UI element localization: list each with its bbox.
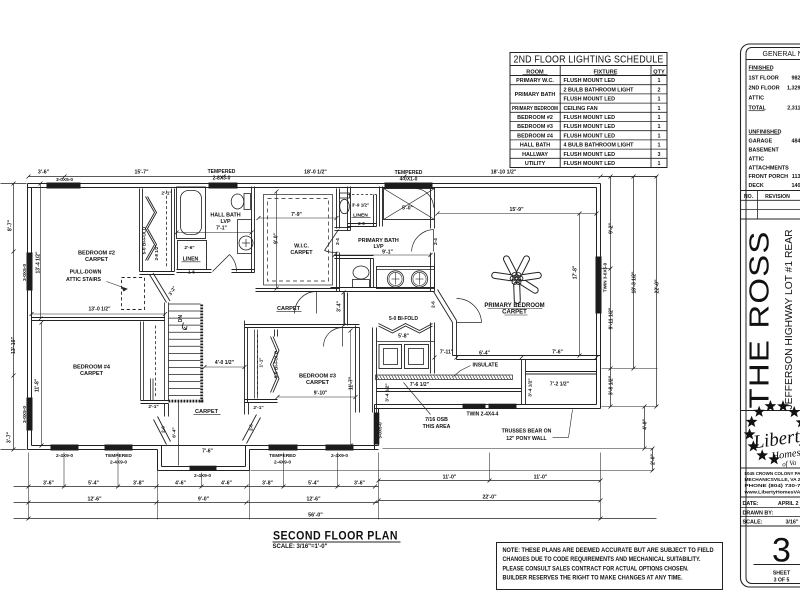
svg-text:12'-6": 12'-6" — [87, 497, 102, 503]
svg-text:4'-6": 4'-6" — [221, 481, 232, 487]
svg-text:1: 1 — [658, 161, 661, 167]
svg-text:2-6: 2-6 — [431, 301, 436, 308]
svg-text:4'-0": 4'-0" — [643, 418, 649, 429]
svg-text:HALLWAY: HALLWAY — [522, 152, 548, 158]
svg-text:982: 982 — [792, 76, 800, 82]
svg-text:ATTIC STAIRS: ATTIC STAIRS — [66, 277, 102, 283]
svg-text:2'-1": 2'-1" — [253, 405, 263, 411]
svg-text:TEMPERED: TEMPERED — [269, 453, 296, 459]
svg-text:LVP: LVP — [220, 219, 230, 225]
svg-text:1: 1 — [658, 133, 661, 139]
svg-text:140: 140 — [792, 183, 800, 189]
svg-text:PRIMARY W.C.: PRIMARY W.C. — [516, 78, 554, 84]
svg-text:SHEET: SHEET — [773, 571, 791, 577]
svg-text:5-0 BI-FOLD: 5-0 BI-FOLD — [274, 350, 280, 378]
svg-text:5-0 BI-FOLD: 5-0 BI-FOLD — [389, 316, 418, 322]
svg-text:PLEASE CONSULT SALES CONTRACT: PLEASE CONSULT SALES CONTRACT FOR ACTUAL… — [503, 565, 689, 572]
svg-text:NO.: NO. — [744, 194, 754, 200]
svg-text:11'-0": 11'-0" — [534, 475, 548, 481]
svg-text:FLUSH MOUNT LED: FLUSH MOUNT LED — [564, 133, 616, 139]
svg-text:2'-6": 2'-6" — [184, 245, 194, 251]
svg-text:11'-7": 11'-7" — [349, 376, 355, 390]
svg-text:GENERAL NOTES: GENERAL NOTES — [763, 51, 800, 58]
svg-text:INSULATE: INSULATE — [473, 363, 499, 369]
svg-text:8045 CROWN COLONY PA: 8045 CROWN COLONY PA — [745, 471, 800, 477]
svg-text:PRIMARY BEDROOM: PRIMARY BEDROOM — [512, 106, 558, 112]
svg-text:FLUSH MOUNT LED: FLUSH MOUNT LED — [564, 78, 616, 84]
svg-text:3/16": 3/16" — [785, 520, 798, 526]
svg-text:TWIN 3-0X5-0: TWIN 3-0X5-0 — [603, 262, 608, 292]
svg-text:18'-10 1/2": 18'-10 1/2" — [491, 170, 517, 176]
svg-text:22'-0": 22'-0" — [482, 495, 497, 501]
svg-text:3-0X5-0: 3-0X5-0 — [22, 406, 28, 423]
svg-text:7'-6": 7'-6" — [552, 350, 563, 356]
svg-text:3'-4 1/2": 3'-4 1/2" — [528, 378, 534, 396]
svg-text:2,311: 2,311 — [787, 106, 800, 112]
svg-text:2 BULB BATHROOM LIGHT: 2 BULB BATHROOM LIGHT — [564, 87, 635, 93]
svg-text:DECK: DECK — [749, 183, 764, 189]
svg-text:TWIN 2-4X4-4: TWIN 2-4X4-4 — [467, 412, 499, 418]
svg-text:PHONE (804) 730-7: PHONE (804) 730-7 — [745, 483, 800, 489]
svg-text:3'-9 1/2": 3'-9 1/2" — [352, 203, 370, 208]
svg-text:ATTACHMENTS: ATTACHMENTS — [749, 165, 790, 171]
svg-text:DN: DN — [178, 315, 184, 323]
svg-text:DATE:: DATE: — [743, 501, 759, 507]
svg-text:3-0X5-0: 3-0X5-0 — [378, 422, 383, 439]
svg-text:BEDROOM #2: BEDROOM #2 — [517, 115, 553, 121]
svg-text:6'-4": 6'-4" — [479, 351, 490, 357]
svg-text:ATTIC: ATTIC — [749, 96, 765, 102]
svg-text:7'-11": 7'-11" — [440, 350, 454, 356]
svg-text:2-0: 2-0 — [358, 221, 365, 226]
svg-text:PULL-DOWN: PULL-DOWN — [70, 270, 102, 276]
svg-text:PRIMARY BATH: PRIMARY BATH — [515, 92, 556, 98]
svg-text:CEILING FAN: CEILING FAN — [564, 106, 598, 112]
svg-text:UTILITY: UTILITY — [525, 161, 546, 167]
svg-text:7'-6": 7'-6" — [202, 449, 213, 455]
svg-text:3'-8": 3'-8" — [262, 481, 273, 487]
svg-text:1: 1 — [658, 97, 661, 103]
svg-text:3'-4": 3'-4" — [337, 300, 343, 311]
svg-text:12'-6": 12'-6" — [306, 497, 321, 503]
svg-text:APRIL 2: APRIL 2 — [778, 501, 799, 507]
svg-text:3: 3 — [772, 532, 791, 570]
svg-text:3'-7": 3'-7" — [7, 431, 13, 443]
svg-text:7'-1": 7'-1" — [216, 226, 227, 232]
svg-text:NOTE: THESE PLANS ARE DEEMED A: NOTE: THESE PLANS ARE DEEMED ACCURATE BU… — [503, 547, 714, 554]
svg-text:CARPET: CARPET — [502, 310, 527, 316]
svg-text:1'-1": 1'-1" — [259, 358, 264, 368]
svg-text:3: 3 — [658, 152, 661, 158]
svg-text:3'-8 1/2": 3'-8 1/2" — [609, 375, 615, 395]
svg-text:SCALE:: SCALE: — [743, 520, 763, 526]
svg-text:BEDROOM #3: BEDROOM #3 — [299, 374, 336, 380]
svg-text:GARAGE: GARAGE — [749, 139, 773, 145]
svg-text:15'-7": 15'-7" — [134, 170, 149, 176]
svg-text:BEDROOM #4: BEDROOM #4 — [517, 133, 553, 139]
svg-text:9'-10": 9'-10" — [314, 391, 328, 397]
svg-text:9'-11 1/2": 9'-11 1/2" — [609, 307, 615, 329]
svg-text:FLUSH MOUNT LED: FLUSH MOUNT LED — [564, 97, 616, 103]
svg-text:BUILDER RESERVES THE RIGHT TO: BUILDER RESERVES THE RIGHT TO MAKE CHANG… — [503, 575, 683, 582]
svg-text:2-4X9-0: 2-4X9-0 — [194, 473, 211, 479]
svg-text:15'-9": 15'-9" — [509, 207, 524, 213]
svg-text:1-6: 1-6 — [188, 270, 195, 275]
svg-text:3-0X5-0: 3-0X5-0 — [22, 264, 28, 281]
svg-text:TRUSSES BEAR ON: TRUSSES BEAR ON — [502, 429, 552, 435]
svg-text:MECHANICSVILLE, VA 2: MECHANICSVILLE, VA 2 — [745, 477, 800, 483]
svg-text:11'-8": 11'-8" — [35, 378, 41, 392]
svg-text:DRAWN BY:: DRAWN BY: — [743, 510, 774, 516]
svg-text:HALL BATH: HALL BATH — [210, 213, 240, 219]
svg-text:5'-8": 5'-8" — [398, 334, 409, 340]
svg-text:2-4X9-0: 2-4X9-0 — [331, 453, 348, 459]
svg-text:REVISION: REVISION — [765, 194, 790, 200]
svg-text:9'-0": 9'-0" — [198, 497, 210, 503]
svg-text:22'-0": 22'-0" — [655, 279, 661, 294]
svg-text:SECOND FLOOR PLAN: SECOND FLOOR PLAN — [273, 531, 398, 543]
svg-text:18'-3 1/2": 18'-3 1/2" — [632, 271, 638, 294]
svg-text:TEMPERED: TEMPERED — [208, 169, 236, 175]
svg-text:7/16 OSB: 7/16 OSB — [425, 417, 448, 423]
svg-text:5'-4": 5'-4" — [308, 481, 319, 487]
svg-text:7'-2 1/2": 7'-2 1/2" — [550, 382, 570, 388]
svg-text:18'-0 1/2": 18'-0 1/2" — [304, 170, 327, 176]
svg-text:2-8X3-0: 2-8X3-0 — [213, 176, 231, 182]
svg-text:6'-4": 6'-4" — [172, 427, 178, 437]
svg-text:2'-0": 2'-0" — [651, 453, 657, 464]
svg-text:5'-0": 5'-0" — [402, 206, 413, 212]
svg-text:CARPET: CARPET — [80, 371, 104, 377]
svg-text:2-4: 2-4 — [433, 238, 438, 245]
svg-text:2ND FLOOR LIGHTING SCHEDULE: 2ND FLOOR LIGHTING SCHEDULE — [514, 55, 664, 66]
svg-text:2ND FLOOR: 2ND FLOOR — [749, 86, 780, 92]
svg-text:2-4X9-0: 2-4X9-0 — [56, 453, 73, 459]
svg-text:FLUSH MOUNT LED: FLUSH MOUNT LED — [564, 152, 616, 158]
svg-text:3-0X5-0: 3-0X5-0 — [56, 177, 73, 183]
svg-text:CHANGES DUE TO CODE REQUIREMEN: CHANGES DUE TO CODE REQUIREMENTS AND MEC… — [503, 556, 701, 563]
svg-text:2-6: 2-6 — [161, 426, 166, 433]
svg-text:SCALE: 3/16"=1'-0": SCALE: 3/16"=1'-0" — [273, 544, 328, 550]
svg-text:CARPET: CARPET — [290, 250, 313, 256]
svg-text:CARPET: CARPET — [85, 257, 109, 263]
svg-text:FRONT PORCH: FRONT PORCH — [749, 174, 789, 180]
svg-text:56'-0": 56'-0" — [308, 513, 323, 519]
svg-text:1: 1 — [658, 106, 661, 112]
svg-text:BEDROOM #3: BEDROOM #3 — [517, 124, 553, 130]
svg-text:4-0X1-0: 4-0X1-0 — [400, 177, 418, 183]
svg-text:BEDROOM #2: BEDROOM #2 — [78, 251, 115, 257]
svg-text:13'-0 1/2": 13'-0 1/2" — [89, 307, 112, 313]
svg-text:LVP: LVP — [373, 244, 383, 250]
svg-text:FLUSH MOUNT LED: FLUSH MOUNT LED — [564, 161, 616, 167]
svg-text:2'-1": 2'-1" — [161, 191, 171, 197]
svg-text:THE ROSS: THE ROSS — [744, 231, 775, 409]
svg-text:9'-0": 9'-0" — [274, 232, 280, 243]
svg-text:3'-6": 3'-6" — [38, 170, 50, 176]
svg-text:JEFFERSON HIGHWAY LOT #1 REAR: JEFFERSON HIGHWAY LOT #1 REAR — [784, 230, 795, 410]
svg-text:1: 1 — [658, 124, 661, 130]
svg-text:5-0 BI-FOLD: 5-0 BI-FOLD — [142, 226, 148, 254]
svg-text:7'-6 1/2": 7'-6 1/2" — [410, 382, 430, 388]
svg-text:3'-8": 3'-8" — [133, 481, 144, 487]
svg-text:www.LibertyHomesVA: www.LibertyHomesVA — [743, 489, 800, 495]
svg-text:13'-4 1/2": 13'-4 1/2" — [36, 251, 42, 274]
svg-text:2: 2 — [658, 87, 661, 93]
svg-text:FLUSH MOUNT LED: FLUSH MOUNT LED — [564, 115, 616, 121]
svg-text:1: 1 — [658, 78, 661, 84]
svg-text:BASEMENT: BASEMENT — [749, 148, 780, 154]
svg-text:1: 1 — [658, 115, 661, 121]
svg-text:2'-1": 2'-1" — [148, 404, 158, 410]
svg-text:484: 484 — [792, 139, 800, 145]
svg-text:9'-2": 9'-2" — [609, 222, 615, 233]
svg-text:PRIMARY BEDROOM: PRIMARY BEDROOM — [484, 303, 544, 309]
svg-text:11'-0": 11'-0" — [443, 475, 457, 481]
svg-text:4'-0 1/2": 4'-0 1/2" — [215, 360, 235, 366]
svg-text:2-4: 2-4 — [335, 238, 340, 245]
svg-text:2-8 1/2": 2-8 1/2" — [154, 245, 159, 261]
svg-text:2-4X9-0: 2-4X9-0 — [274, 460, 291, 466]
svg-text:3'-6": 3'-6" — [43, 481, 54, 487]
svg-text:5'-4": 5'-4" — [88, 481, 99, 487]
svg-text:3'-4 1/2": 3'-4 1/2" — [385, 383, 391, 401]
svg-text:W.I.C.: W.I.C. — [294, 244, 309, 250]
svg-text:THIS AREA: THIS AREA — [423, 424, 451, 430]
svg-text:ATTIC: ATTIC — [749, 157, 765, 163]
svg-text:BEDROOM #4: BEDROOM #4 — [73, 365, 111, 371]
svg-text:1ST FLOOR: 1ST FLOOR — [749, 76, 779, 82]
svg-text:TEMPERED: TEMPERED — [395, 170, 423, 176]
svg-text:3'-6": 3'-6" — [354, 481, 365, 487]
svg-text:CARPET: CARPET — [306, 380, 330, 386]
svg-text:7'-9": 7'-9" — [291, 212, 302, 218]
svg-text:8'-7": 8'-7" — [8, 219, 14, 231]
svg-text:4'-6": 4'-6" — [175, 481, 186, 487]
svg-text:TEMPERED: TEMPERED — [105, 453, 132, 459]
svg-text:13'-10": 13'-10" — [11, 336, 17, 354]
svg-text:1,329: 1,329 — [787, 86, 800, 92]
svg-text:2-6: 2-6 — [249, 424, 254, 431]
svg-text:HALL BATH: HALL BATH — [520, 143, 550, 149]
svg-text:4 BULB BATHROOM LIGHT: 4 BULB BATHROOM LIGHT — [564, 143, 635, 149]
svg-text:17'-8": 17'-8" — [573, 265, 579, 279]
svg-text:113: 113 — [792, 174, 800, 180]
svg-text:12" PONY WALL: 12" PONY WALL — [506, 436, 547, 442]
svg-text:1: 1 — [658, 143, 661, 149]
svg-text:3 OF 5: 3 OF 5 — [774, 578, 790, 584]
svg-text:FLUSH MOUNT LED: FLUSH MOUNT LED — [564, 124, 616, 130]
svg-text:2-4X9-0: 2-4X9-0 — [110, 460, 127, 466]
